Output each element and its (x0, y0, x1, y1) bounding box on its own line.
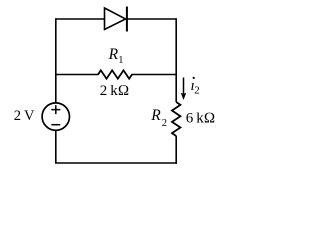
svg-text:R: R (150, 107, 161, 124)
svg-text:2 kΩ: 2 kΩ (100, 83, 130, 99)
svg-text:R: R (108, 46, 119, 63)
svg-text:2: 2 (162, 118, 167, 129)
svg-text:2 V: 2 V (14, 108, 35, 124)
svg-text:6 kΩ: 6 kΩ (186, 111, 216, 127)
svg-text:2: 2 (194, 85, 200, 97)
svg-text:1: 1 (118, 55, 123, 66)
